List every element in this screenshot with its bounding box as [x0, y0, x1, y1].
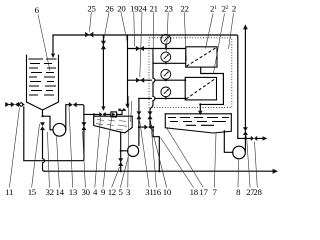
valve 16 [148, 111, 153, 119]
valve 32 [40, 122, 45, 130]
tank 6 [27, 55, 59, 110]
wire tank7 to pump8 inlet [224, 131, 232, 153]
leader 27 [247, 136, 251, 188]
wire branch1 to module1 (y=48.5) [128, 48, 186, 50]
svg-text:14: 14 [55, 187, 64, 197]
pump 5 [128, 145, 139, 156]
wire bottom drain arrow line [45, 169, 279, 174]
leader 2-2 [214, 14, 225, 74]
leader 17 [167, 129, 203, 188]
wire riser x=127.5 with arrow into tank9 [125, 35, 129, 108]
svg-text:24: 24 [138, 3, 147, 13]
leader 30 [83, 131, 86, 188]
wire riser31 from pipe4 down to pump5 [138, 98, 140, 145]
leader 31 [140, 121, 150, 188]
svg-text:13: 13 [69, 187, 78, 197]
valve 19 [136, 46, 144, 51]
valve 30 [81, 122, 86, 130]
leader 9 [103, 118, 112, 188]
svg-text:28: 28 [253, 187, 262, 197]
valve 25 [85, 32, 93, 38]
wire stub to ejector [106, 113, 111, 115]
wire module1 outlet wrap around module2 [199, 67, 223, 105]
wire top feed pipe with corner and bypass right edge [53, 35, 238, 138]
gauge 23b [161, 52, 171, 64]
svg-text:11: 11 [5, 187, 13, 197]
svg-text:2: 2 [232, 3, 236, 13]
valve 11 (inlet) [5, 102, 24, 107]
gauge 23c [161, 69, 171, 81]
valve 27 [243, 127, 248, 135]
svg-text:17: 17 [199, 187, 208, 197]
wire riser30 down and feed line y=160.7 to valve 11 [24, 107, 84, 161]
leader 16 [151, 121, 157, 188]
valve 10 [144, 125, 152, 130]
membrane module 2-2 [184, 77, 216, 100]
leader 24 [140, 12, 142, 77]
svg-text:26: 26 [105, 3, 114, 13]
svg-text:18: 18 [190, 187, 199, 197]
svg-text:22: 22 [180, 3, 188, 13]
wire pipe4 module2 outlet (y=98.4) [139, 97, 185, 99]
gauge 23d [161, 87, 171, 100]
leader 18 [161, 138, 194, 188]
leader 10 [152, 130, 167, 188]
wire drain branch y=127.1 with valve 10 [139, 126, 154, 128]
valve 13 [69, 102, 77, 107]
leader 23 [167, 12, 169, 52]
valve 28 [251, 136, 257, 141]
leader 7 [214, 134, 216, 188]
dotted enclosure box 2 [149, 38, 232, 108]
wire branch2 to module2 (y=80.2) [128, 79, 186, 81]
wire valve26 drop with arrow into tank9 assembly [101, 35, 105, 111]
leader 13 [69, 108, 73, 188]
wire zigzag drain to bottom line [153, 127, 160, 172]
valve 4 (solenoid on tank rim) [99, 112, 105, 117]
nozzle 12 (sparger) [117, 109, 126, 115]
svg-text:23: 23 [164, 3, 173, 13]
leader 2-1 [206, 14, 214, 49]
leader 6 [38, 15, 50, 72]
leader 5 [120, 156, 128, 188]
leader 19 [133, 12, 136, 46]
svg-text:30: 30 [81, 187, 90, 197]
leader 14 [57, 137, 60, 188]
wire pipe2 module1 outlet (y=63.3) [153, 62, 186, 64]
leader 21 [152, 12, 154, 55]
svg-text:16: 16 [153, 187, 162, 197]
tank 9 [94, 116, 133, 133]
svg-text:15: 15 [28, 187, 37, 197]
svg-text:10: 10 [163, 187, 172, 197]
wire pump14 outlet riser to valve13 line [66, 105, 84, 130]
leader 12 [112, 167, 120, 188]
ejector 9 (box with triangle) [111, 112, 117, 117]
wire product outlet line with valve 28 and arrow [238, 136, 267, 140]
wire manifold vertical x=153 with hops [150, 49, 155, 128]
leader 20 [121, 12, 127, 42]
pump 8 [233, 146, 246, 159]
wire pump8 outlet riser to top arrow [243, 24, 248, 151]
valve 31 [136, 111, 141, 119]
leader 32 [48, 132, 50, 188]
wire pump14 inlet from funnel junction [41, 110, 53, 130]
leader 8 [237, 160, 240, 188]
svg-text:20: 20 [117, 3, 126, 13]
leader 25 [90, 12, 92, 31]
tank 7 [165, 114, 231, 133]
leader 22 [184, 12, 186, 61]
svg-text:21: 21 [149, 3, 157, 13]
leader 28 [255, 142, 258, 188]
membrane module 2-1 [186, 47, 217, 67]
wire tank6 inlet drop [51, 35, 55, 58]
leader 2 [229, 14, 234, 50]
leader 11 [9, 108, 19, 188]
valve 24 [136, 78, 144, 83]
pump 14 [53, 123, 66, 136]
valve 12 [118, 158, 123, 166]
valve 26 [101, 41, 106, 49]
leader 15 [32, 124, 40, 188]
svg-text:12: 12 [108, 187, 116, 197]
wire tank6 drain with hop to bottom drain line [43, 130, 45, 171]
wire drop into tank 7 with arrow [198, 104, 202, 115]
leader 26 [104, 12, 109, 39]
leader 3 [128, 96, 132, 188]
leader 4 [95, 118, 101, 188]
wire tank9 rim assembly feed (y=114.4) [84, 113, 99, 115]
svg-text:32: 32 [45, 187, 53, 197]
svg-text:25: 25 [87, 3, 96, 13]
gauge 23a [161, 35, 171, 50]
wire tank9 drain to pump5 and valve12 [120, 133, 128, 173]
